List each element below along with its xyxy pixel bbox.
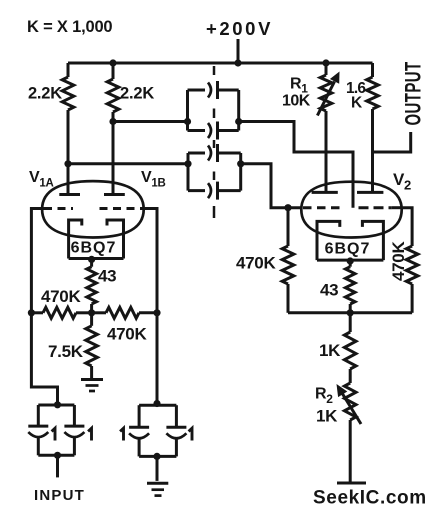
- node grid bias left junction: [28, 309, 35, 316]
- label 1K (R2): [316, 407, 338, 426]
- node V1 cathode junction: [88, 256, 95, 263]
- svg-text:2.2K: 2.2K: [28, 85, 62, 103]
- node C1 left tap: [184, 118, 191, 125]
- resistor 2.2K (right): [107, 63, 119, 112]
- svg-text:1K: 1K: [316, 407, 338, 426]
- capacitor input C5: [129, 405, 176, 456]
- label V1B: [141, 169, 165, 190]
- svg-text:10K: 10K: [282, 93, 311, 110]
- node R1 top junction: [322, 59, 329, 66]
- wire C2 right side: [239, 153, 242, 191]
- wire right cap ground lead: [156, 456, 159, 481]
- tube V2A plate: [312, 191, 338, 194]
- label K = X 1,000: [27, 18, 112, 36]
- capacitor gang C1a (top): [188, 81, 239, 99]
- label 2.2K right: [120, 85, 154, 103]
- tube V1B grid: [100, 207, 144, 210]
- label 470K vertical: [389, 241, 408, 281]
- label 470K left of V2: [236, 254, 276, 273]
- capacitor input C4: [38, 405, 84, 455]
- svg-text:43: 43: [320, 281, 338, 300]
- tube V1 cathode box: [69, 220, 124, 259]
- wire input lead: [56, 455, 59, 477]
- svg-text:K: K: [351, 95, 363, 112]
- label 6BQ7 (V1): [71, 240, 117, 257]
- wire C2 tap to V2A grid: [241, 164, 302, 208]
- node V2A grid junction: [284, 204, 291, 211]
- label R1: [290, 76, 308, 96]
- resistor 43 (V2): [345, 260, 355, 313]
- label 1 (C6): [189, 428, 192, 440]
- wire C1 tap to V2B grid: [239, 122, 353, 208]
- svg-text:470K: 470K: [41, 287, 81, 306]
- wire output tap: [373, 132, 411, 152]
- resistor 470K (left): [31, 307, 91, 318]
- node cathode network junction: [88, 309, 95, 316]
- svg-text:K = X 1,000: K = X 1,000: [27, 18, 112, 36]
- wire V1B grid down: [144, 209, 157, 404]
- wire 2.2K to gang cap top-left tap: [113, 120, 188, 123]
- resistor 470K (right): [92, 307, 157, 318]
- svg-text:+200V: +200V: [206, 18, 273, 39]
- tube V1B plate: [104, 193, 125, 196]
- svg-text:INPUT: INPUT: [34, 487, 85, 504]
- svg-text:SeekIC.com: SeekIC.com: [313, 488, 427, 509]
- tube V1 envelope: [42, 181, 144, 237]
- label 470K lower: [107, 325, 147, 344]
- label 1K: [319, 341, 341, 360]
- resistor 43 (V1): [87, 259, 97, 313]
- node C2 left tap: [184, 160, 191, 167]
- label 1.6K: [346, 80, 366, 112]
- wire V1A grid down: [31, 209, 57, 405]
- resistor R2 1K pot: [344, 383, 356, 420]
- node right cap bottom junction: [153, 453, 160, 460]
- node input cap bottom junction: [54, 452, 61, 459]
- capacitor input C6: [139, 405, 186, 456]
- node 2.2K right top junction: [109, 59, 116, 66]
- tube V1A grid: [44, 207, 73, 210]
- label 1 (C5): [120, 428, 123, 440]
- capacitor gang C2b (bottom): [188, 182, 241, 200]
- node right cap top junction: [153, 400, 160, 407]
- wire V1A plate lead: [67, 110, 70, 195]
- gang cap dashed link: [213, 66, 216, 218]
- svg-text:470K: 470K: [236, 254, 276, 273]
- label 6BQ7 (V2): [325, 241, 371, 258]
- wire V2 bottom rail: [288, 311, 412, 314]
- resistor 1.6K: [367, 63, 379, 109]
- node input cap top junction: [54, 401, 61, 408]
- wire C1 right side: [237, 90, 240, 131]
- wire C2 left side: [187, 153, 190, 191]
- node bottom rail junction: [347, 309, 354, 316]
- wire R2 to ground: [349, 420, 352, 483]
- svg-text:2.2K: 2.2K: [120, 85, 154, 103]
- resistor R1 10K pot: [320, 63, 332, 111]
- svg-text:6BQ7: 6BQ7: [325, 241, 371, 258]
- wire 1.6K to V2B plate: [371, 109, 374, 192]
- label 10K: [282, 93, 311, 110]
- tube V2B grid: [359, 206, 403, 209]
- tube V1A plate: [59, 193, 80, 196]
- tube V2 envelope: [301, 182, 401, 238]
- label 470K upper: [41, 287, 81, 306]
- node 2.2K right bottom junction: [109, 118, 116, 125]
- capacitor gang C1b (bottom): [188, 122, 239, 140]
- label V2: [393, 170, 411, 193]
- label +200V: [206, 18, 273, 39]
- svg-text:6BQ7: 6BQ7: [71, 240, 117, 257]
- wire C1 left side: [186, 90, 189, 131]
- ground R2: [337, 482, 366, 485]
- resistor 7.5K: [86, 313, 98, 379]
- svg-text:470K: 470K: [107, 325, 147, 344]
- svg-text:470K: 470K: [389, 241, 408, 281]
- label 1 (C3): [52, 428, 55, 440]
- svg-text:43: 43: [98, 267, 116, 286]
- arrow R1 wiper: [317, 72, 339, 116]
- node C1 right tap: [235, 118, 242, 125]
- resistor 470K (V2 left): [282, 208, 294, 313]
- ground right cap: [147, 483, 168, 495]
- svg-text:7.5K: 7.5K: [48, 342, 84, 361]
- watermark SeekIC.com: [313, 488, 427, 509]
- node V2 cathode junction: [347, 257, 354, 264]
- node V1A plate junction: [64, 160, 71, 167]
- tube V2 cathode box: [317, 221, 383, 260]
- label OUTPUT: [401, 61, 425, 125]
- label 2.2K left: [28, 85, 62, 103]
- wire +200V lead: [237, 39, 240, 63]
- svg-text:OUTPUT: OUTPUT: [401, 61, 425, 125]
- wire V1A plate to gang cap bottom-left tap: [68, 162, 188, 165]
- ground 7.5K: [81, 380, 103, 392]
- node +200V junction: [234, 59, 241, 66]
- capacitor gang C2a (top): [188, 144, 241, 162]
- label V1A: [29, 169, 53, 190]
- label 1 (C4): [88, 428, 91, 440]
- wire V2B grid to 470K: [403, 208, 412, 246]
- tube V2A grid: [303, 206, 341, 209]
- resistor 2.2K (left): [62, 63, 74, 110]
- label 7.5K: [48, 342, 84, 361]
- wire B+ rail: [68, 62, 373, 65]
- label R2: [315, 386, 333, 407]
- arrow R2 wiper: [337, 384, 362, 424]
- resistor 470K (V2 right): [406, 246, 418, 313]
- label 43 (V1): [98, 267, 116, 286]
- label 43 (V2): [320, 281, 338, 300]
- resistor 1K: [344, 313, 356, 383]
- wire R1 to V2A plate: [325, 111, 328, 192]
- node grid bias right junction: [153, 309, 160, 316]
- tube V2B plate: [357, 191, 383, 194]
- node C2 right tap: [237, 160, 244, 167]
- wire V1B plate lead: [112, 112, 115, 195]
- label INPUT: [34, 487, 85, 504]
- svg-text:1K: 1K: [319, 341, 341, 360]
- capacitor input C3: [28, 405, 74, 455]
